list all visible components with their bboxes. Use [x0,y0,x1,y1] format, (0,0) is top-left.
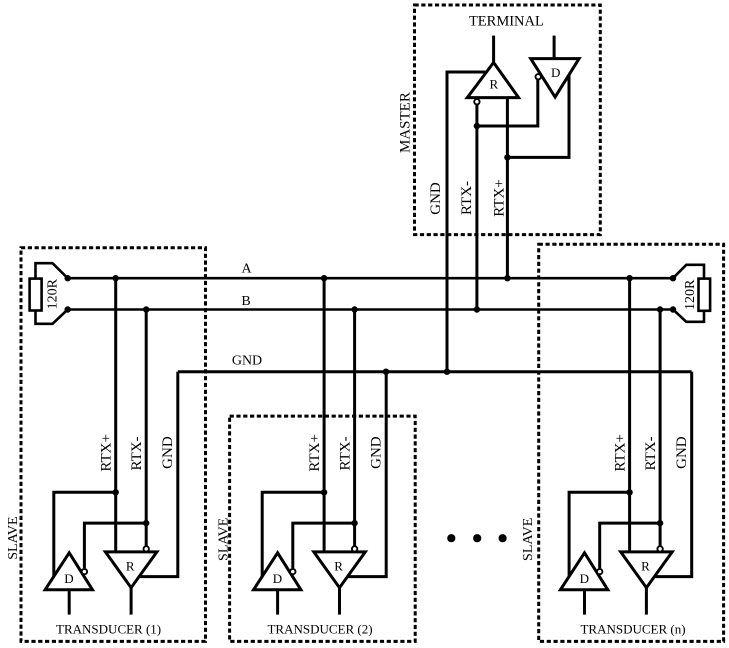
resistor 120R right leads [673,265,704,322]
label GND S2 [368,436,384,469]
wire R output stub S2 [338,588,341,615]
junction RTX- / bus B S1 [143,306,149,312]
svg-text:R: R [126,558,135,573]
junction RTX- / D enable branch S1 [143,520,149,526]
label GND (master) [428,182,444,215]
junction RTX- / D enable branch Sn [657,520,663,526]
resistor 120R left body [30,279,42,311]
label SLAVE Sn [521,518,536,561]
wire RTX- drop S1 [145,310,148,547]
svg-text:SLAVE: SLAVE [217,518,232,561]
bubble on R enable (master) [474,99,479,104]
driver "D" S1 [45,553,92,590]
svg-text:A: A [241,262,252,277]
junction RTX+ / D branch S2 [321,489,327,495]
slave box Sn (dashed) [539,244,724,641]
bubble on D enable S2 [290,569,295,574]
svg-text:GND: GND [674,436,690,469]
svg-text:D: D [551,65,560,80]
receiver "R" Sn [621,552,673,588]
junction 120R right / bus B [670,306,676,312]
wire GND drop Sn [655,372,692,577]
svg-text:RTX+: RTX+ [492,179,508,217]
svg-text:RTX+: RTX+ [99,434,115,472]
wire D output branch S2 [262,492,324,577]
bubble on R enable S2 [352,546,357,551]
svg-text:D: D [580,571,589,586]
svg-text:B: B [241,294,250,309]
svg-text:RTX-: RTX- [129,436,145,470]
svg-text:GND: GND [232,354,262,369]
wire D input stub Sn [583,590,586,615]
master box (dashed) [415,5,601,235]
label RTX+ S2 [307,434,323,472]
svg-text:RTX+: RTX+ [307,434,323,472]
ellipsis dots between slaves [447,534,507,542]
junction RTX+ / bus A S1 [113,275,119,281]
wire RTX+ drop S1 [114,278,117,552]
junction RTX+ / bus A S2 [321,275,327,281]
svg-text:GND: GND [368,436,384,469]
junction master RTX- / bus B [474,306,480,312]
wire TERMINAL to D input [553,36,556,59]
label RTX+ S1 [99,434,115,472]
wire GND drop S1 [140,372,178,577]
svg-text:SLAVE: SLAVE [6,516,21,559]
junction RTX+ / bus A Sn [626,275,632,281]
wire D output branch Sn [569,492,630,577]
junction RTX- / bus B S2 [351,306,357,312]
junction RTX+ / D output branch [504,154,510,160]
wire D output branch S1 [54,492,116,577]
label RTX- (master) [459,181,475,215]
wire bus B [68,308,673,311]
junction RTX+ / D branch Sn [626,489,632,495]
driver "D" Sn [560,553,607,590]
junction RTX- / enable branch [474,123,480,129]
label TRANSDUCER (1) [56,622,161,637]
wire D enable branch Sn [600,523,660,568]
wire enable branch to D bubble [477,80,538,126]
label RTX- S1 [129,436,145,470]
slave box S1 (dashed) [21,248,206,642]
label RTX+ (master) [492,179,508,217]
wire D input stub S2 [276,590,279,615]
junction slave2 GND / GND bus [383,369,389,375]
svg-text:TRANSDUCER (1): TRANSDUCER (1) [56,622,161,637]
slave box S2 (dashed) [230,416,416,641]
label SLAVE S1 [6,516,21,559]
svg-text:TRANSDUCER (2): TRANSDUCER (2) [267,622,372,637]
label GND S1 [160,436,176,469]
receiver "R" S2 [314,552,366,588]
wire RTX- drop Sn [659,310,662,547]
wire R output stub S1 [130,588,133,615]
wire R output stub Sn [645,588,648,615]
resistor 120R right body [699,279,711,311]
wire RTX+ drop S2 [323,278,326,552]
wire GND drop S2 [348,372,386,577]
junction RTX+ / D branch S1 [113,489,119,495]
svg-text:RTX-: RTX- [459,181,475,215]
wire GND to R left edge [447,72,487,372]
svg-text:SLAVE: SLAVE [521,518,536,561]
junction RTX- / D enable branch S2 [351,520,357,526]
svg-text:R: R [334,558,343,573]
label MASTER [398,92,414,153]
svg-text:GND: GND [160,436,176,469]
driver "D" S2 [254,553,301,590]
junction master RTX+ / bus A [504,275,510,281]
label RTX+ Sn [613,434,629,472]
wire D enable branch S2 [293,523,355,568]
node A label [241,262,252,277]
label SLAVE S2 [217,518,232,561]
label 120R left [45,278,60,309]
label RTX- Sn [643,436,659,470]
label GND Sn [674,436,690,469]
driver U2 "D" (master) [531,59,579,97]
junction RTX- / bus B Sn [657,306,663,312]
wire D enable branch S1 [84,523,146,568]
bubble on R enable Sn [657,546,662,551]
junction 120R left / bus B [65,306,71,312]
label 120R right [683,279,698,310]
svg-text:TERMINAL: TERMINAL [469,14,544,30]
svg-text:MASTER: MASTER [398,92,414,153]
label TRANSDUCER (n) [580,622,685,637]
bubble on R enable S1 [144,546,149,551]
label RTX- S2 [338,436,354,470]
junction 120R left / bus A [65,275,71,281]
junction master GND / GND bus [444,369,450,375]
wire R output to TERMINAL [492,36,495,64]
svg-text:D: D [64,571,73,586]
wire RTX+ drop Sn [628,278,631,552]
receiver U1 "R" (master) [467,63,518,98]
svg-text:R: R [489,77,498,92]
node GND label [232,354,262,369]
svg-text:TRANSDUCER (n): TRANSDUCER (n) [580,622,685,637]
svg-text:120R: 120R [45,278,60,309]
svg-text:120R: 120R [683,279,698,310]
svg-text:RTX-: RTX- [338,436,354,470]
receiver "R" S1 [105,552,156,588]
wire RTX+ (master) [506,98,509,279]
junction 120R right / bus A [670,275,676,281]
bubble on D enable (master) [536,74,541,79]
svg-text:D: D [273,571,282,586]
bubble on D enable Sn [597,569,602,574]
bubble on D enable S1 [82,569,87,574]
resistor 120R left leads [36,263,68,324]
label TRANSDUCER (2) [267,622,372,637]
svg-text:RTX+: RTX+ [613,434,629,472]
svg-text:RTX-: RTX- [643,436,659,470]
wire RTX- drop S2 [353,310,356,547]
wire D input stub S1 [68,590,71,615]
wire bus A [68,277,673,280]
wire D output branch [507,74,569,157]
svg-text:GND: GND [428,182,444,215]
svg-text:R: R [641,558,650,573]
wire bus GND [178,370,692,373]
label TERMINAL [469,14,544,30]
wire RTX- (master) [475,105,478,310]
node B label [241,294,250,309]
